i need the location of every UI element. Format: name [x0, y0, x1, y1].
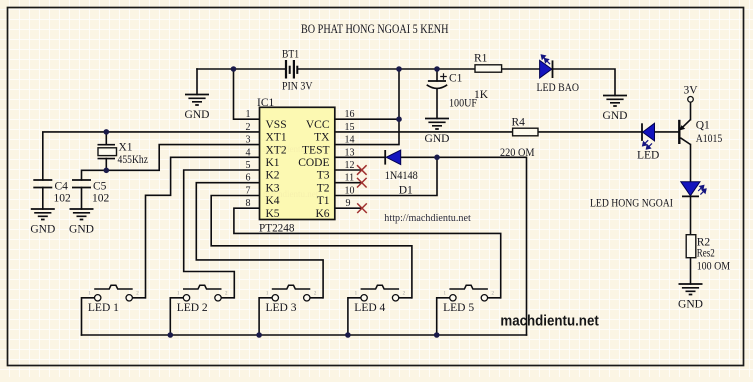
svg-text:X1: X1: [119, 142, 133, 154]
svg-text:GND: GND: [603, 110, 628, 122]
svg-text:3: 3: [246, 135, 251, 146]
svg-text:K5: K5: [266, 208, 280, 220]
wire SW5 left drop: [436, 298, 438, 335]
svg-text:LED 2: LED 2: [177, 302, 208, 314]
svg-text:VCC: VCC: [306, 119, 330, 131]
svg-text:GND: GND: [185, 109, 210, 121]
svg-text:100UF: 100UF: [449, 98, 477, 110]
svg-text:TX: TX: [314, 132, 330, 144]
LED (red indicator): [637, 123, 659, 161]
svg-text:LED BAO: LED BAO: [537, 82, 580, 94]
capacitor C5: [72, 180, 110, 205]
svg-text:LED HONG NGOAI: LED HONG NGOAI: [590, 198, 673, 210]
junction rail SW4: [345, 332, 351, 338]
wire pin4 K1 to SW1: [146, 157, 260, 297]
wire Q1 collector to LED HONG NGOAI: [690, 145, 692, 182]
wire SW1 left drop: [81, 298, 83, 335]
svg-text:R4: R4: [512, 117, 526, 129]
transistor Q1 A1015: [679, 120, 722, 146]
wire SW4 left drop: [347, 298, 349, 335]
no-ERC X pin12: [357, 165, 367, 175]
svg-text:Res2: Res2: [697, 248, 715, 260]
svg-text:GND: GND: [69, 223, 94, 235]
wire pin12 stub: [335, 169, 362, 171]
svg-text:T3: T3: [317, 170, 330, 182]
wire LED to Q1 base: [655, 131, 679, 133]
svg-text:455Khz: 455Khz: [118, 154, 149, 166]
svg-text:CODE: CODE: [298, 157, 329, 169]
wire LED HONG NGOAI to R2: [690, 196, 692, 234]
svg-text:11: 11: [345, 173, 355, 184]
switch LED 2: [170, 285, 234, 314]
junction pin16: [396, 116, 402, 122]
svg-text:7: 7: [246, 185, 251, 196]
wire pin13 CODE to D1: [335, 156, 385, 158]
ground GND (C4): [30, 209, 55, 235]
svg-text:R2: R2: [697, 236, 711, 248]
junction VCC drop: [396, 66, 402, 72]
svg-text:K2: K2: [266, 170, 280, 182]
svg-text:4: 4: [246, 147, 251, 158]
svg-text:PT2248: PT2248: [259, 222, 295, 234]
svg-text:D1: D1: [399, 185, 413, 197]
svg-text:LED: LED: [637, 150, 659, 162]
svg-text:Q1: Q1: [696, 120, 710, 132]
svg-text:GND: GND: [425, 133, 450, 145]
svg-text:LED 5: LED 5: [443, 302, 474, 314]
wire C1 leads: [436, 69, 438, 119]
svg-text:C1: C1: [449, 73, 463, 85]
wire R1 to LED BAO: [502, 68, 540, 70]
svg-text:T1: T1: [317, 195, 330, 207]
svg-text:6: 6: [246, 173, 251, 184]
junction C1: [434, 66, 440, 72]
wire X1 top lead: [105, 132, 107, 145]
svg-text:12: 12: [345, 160, 355, 171]
ground GND (C5): [69, 209, 94, 235]
junction battery left: [231, 66, 237, 72]
resistor R4: [500, 117, 538, 160]
svg-text:13: 13: [345, 147, 355, 158]
junction X1 bottom: [104, 168, 110, 174]
wire battery to R1: [297, 68, 475, 70]
wire pin8 K5 to SW5: [234, 208, 501, 298]
diode D1 1N4148: [385, 150, 418, 197]
wire pin15 TX to R4: [335, 131, 513, 133]
junction rail SW5: [434, 332, 440, 338]
ground GND (R2): [678, 284, 703, 310]
svg-text:1K: 1K: [474, 89, 489, 101]
svg-text:A1015: A1015: [696, 133, 723, 145]
wire X1 bottom lead: [105, 159, 107, 171]
switch LED 4: [348, 285, 412, 314]
svg-text:K1: K1: [266, 157, 280, 169]
svg-text:8: 8: [246, 198, 251, 209]
wire SW3 left drop: [258, 298, 260, 335]
svg-text:9: 9: [346, 198, 351, 209]
svg-text:VSS: VSS: [266, 119, 287, 131]
wire pin9 stub: [335, 207, 362, 209]
svg-text:102: 102: [54, 193, 72, 205]
wire pin6 K3 to SW3: [196, 183, 323, 298]
svg-text:LED 3: LED 3: [266, 302, 297, 314]
switch LED 5: [437, 285, 501, 314]
wire SW2 left drop: [169, 298, 171, 335]
svg-text:http://machdientu.net: http://machdientu.net: [384, 213, 471, 224]
svg-text:3V: 3V: [684, 85, 699, 97]
junction rail SW3: [256, 332, 262, 338]
svg-text:IC1: IC1: [257, 97, 275, 109]
capacitor C1: [427, 73, 477, 110]
power terminal 3V: [684, 85, 699, 103]
no-ERC X pin11: [357, 178, 367, 188]
svg-text:C5: C5: [93, 181, 107, 193]
switch LED 1: [82, 285, 146, 314]
wire VCC vertical to pin16/pin14: [335, 69, 399, 145]
svg-text:K6: K6: [315, 208, 329, 220]
svg-text:LED 4: LED 4: [354, 302, 385, 314]
svg-text:BT1: BT1: [282, 49, 299, 61]
svg-text:LED 1: LED 1: [88, 302, 119, 314]
wire pin1 VSS: [234, 69, 260, 119]
wire GND1 drop: [196, 69, 198, 95]
wire C4 to GND: [42, 188, 44, 210]
svg-text:14: 14: [345, 135, 355, 146]
junction rail SW2: [168, 332, 174, 338]
resistor R2: [686, 235, 730, 273]
LED HONG NGOAI: [590, 182, 706, 210]
svg-text:PIN 3V: PIN 3V: [282, 81, 313, 93]
svg-text:R1: R1: [474, 53, 488, 65]
wire pin3 XT2 to C5: [82, 145, 260, 180]
ground GND (LED BAO): [603, 96, 628, 122]
wire pin7 K4 to SW4: [211, 196, 412, 298]
svg-text:100 OM: 100 OM: [697, 260, 730, 272]
IC U1 PT2248: [246, 97, 355, 234]
ground GND (C1): [425, 119, 450, 145]
no-ERC X pin9: [357, 203, 367, 213]
svg-text:TEST: TEST: [302, 144, 329, 156]
wire common rail: [82, 334, 527, 336]
svg-text:15: 15: [345, 122, 355, 133]
wire LED BAO to GND drop: [553, 69, 616, 96]
wire C5 to GND: [81, 188, 83, 210]
wire junction down-right to rail: [437, 157, 527, 335]
svg-text:XT2: XT2: [266, 144, 287, 156]
wire pin10 T1: [335, 157, 437, 195]
junction X1 top: [104, 129, 110, 135]
wire pin2 XT1 to C4: [43, 132, 260, 180]
svg-text:220 OM: 220 OM: [500, 147, 535, 159]
svg-text:C4: C4: [55, 181, 69, 193]
svg-text:1N4148: 1N4148: [385, 170, 418, 182]
svg-text:16: 16: [345, 109, 355, 120]
wire R2 to GND: [690, 257, 692, 285]
crystal X1: [98, 142, 149, 167]
svg-text:K4: K4: [266, 195, 280, 207]
svg-text:1: 1: [246, 109, 251, 120]
svg-text:XT1: XT1: [266, 132, 287, 144]
battery BT1: [286, 60, 297, 79]
capacitor C4: [33, 180, 71, 205]
wire VCC top left to battery: [197, 68, 286, 70]
svg-text:GND: GND: [30, 223, 55, 235]
svg-text:10: 10: [345, 185, 355, 196]
wire 3V to Q1 emitter: [690, 102, 692, 120]
ground GND (battery): [185, 95, 210, 121]
svg-text:2: 2: [246, 122, 251, 133]
svg-text:T2: T2: [317, 182, 330, 194]
LED BAO: [537, 55, 580, 94]
wire R4 to LED: [538, 131, 642, 133]
wire pin5 K2 to SW2: [184, 170, 260, 298]
resistor R1: [474, 53, 502, 102]
svg-text:5: 5: [246, 160, 251, 171]
svg-text:K3: K3: [266, 182, 280, 194]
svg-text:102: 102: [92, 193, 110, 205]
svg-text:BO PHAT HONG NGOAI 5 KENH: BO PHAT HONG NGOAI 5 KENH: [301, 22, 449, 36]
wire D1 to junction: [401, 156, 437, 158]
svg-text:GND: GND: [678, 298, 703, 310]
wire pin11 stub: [335, 182, 362, 184]
junction D1 T1: [434, 155, 440, 161]
svg-text:machdientu.net: machdientu.net: [500, 314, 599, 330]
switch LED 3: [259, 285, 323, 314]
